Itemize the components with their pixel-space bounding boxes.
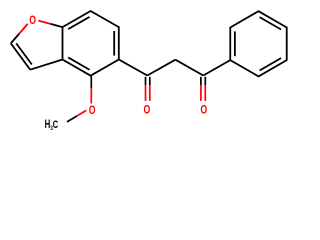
- svg-text:O: O: [144, 104, 151, 116]
- svg-text:O: O: [89, 105, 96, 117]
- svg-text:O: O: [29, 15, 36, 27]
- svg-text:O: O: [200, 104, 207, 116]
